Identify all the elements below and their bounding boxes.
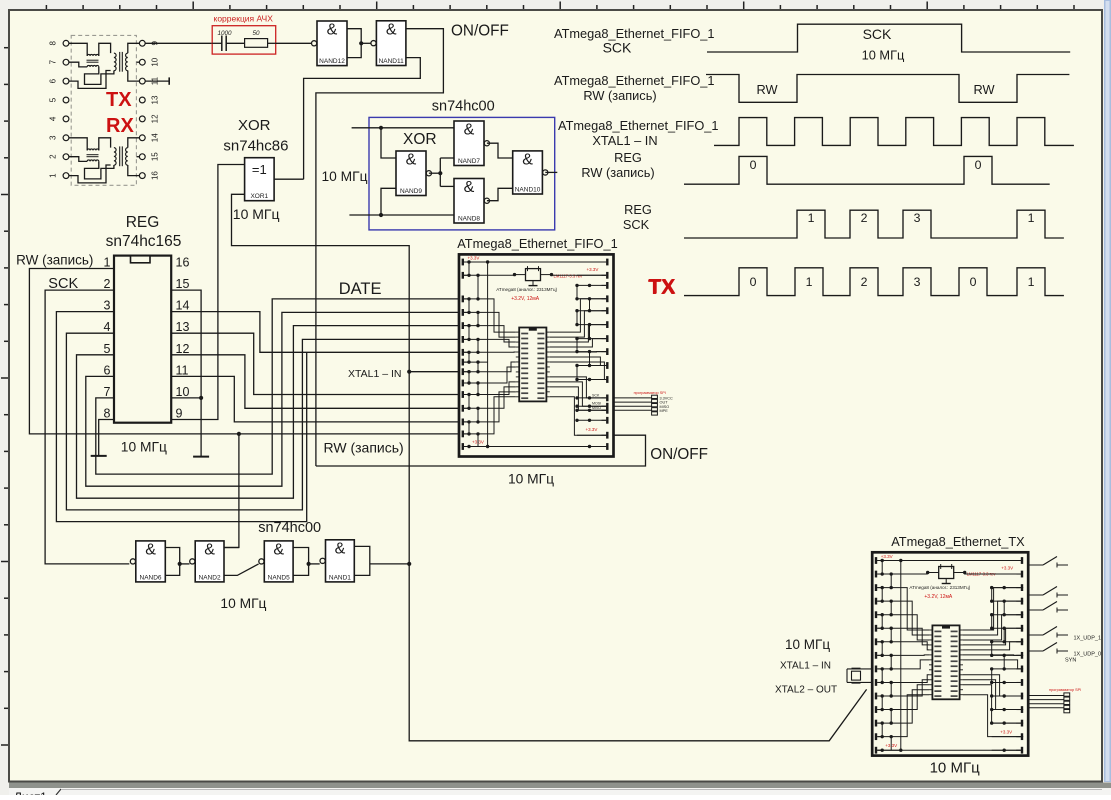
board pin header L7 [875, 638, 877, 645]
switch S4 [1028, 634, 1043, 636]
wire: REG pin14 jog [171, 312, 459, 353]
regulator feed wires [488, 274, 515, 276]
svg-text:5: 5 [104, 342, 111, 356]
svg-text:RW: RW [973, 82, 995, 97]
svg-text:NAND8: NAND8 [458, 216, 480, 223]
wire board row to IC pin 13 [488, 392, 516, 422]
row wire R12 [577, 405, 606, 407]
nand gate NAND9 [396, 151, 432, 196]
IC pin stub 2 [929, 634, 932, 636]
capacitor C (1000) [212, 42, 222, 44]
wire: B to NAND9 [381, 188, 396, 215]
svg-text:REG: REG [614, 150, 642, 165]
IC pin stub 3 [516, 341, 519, 343]
row wire R4 [992, 600, 1021, 602]
wire board row to IC pin 13 [901, 690, 929, 723]
svg-text:ON/OFF: ON/OFF [451, 23, 509, 40]
wire board row to IC pin 3 [901, 615, 929, 640]
IC pin stub 13 [929, 689, 932, 691]
board pin header R8 [606, 348, 608, 355]
svg-text:16: 16 [176, 256, 190, 270]
wire IC pin 4 to board row [550, 339, 609, 347]
crystal Y1 [847, 668, 872, 670]
svg-text:+3.3V: +3.3V [586, 427, 598, 432]
row wire R16 [577, 446, 606, 448]
svg-text:+3.2V, 12мА: +3.2V, 12мА [924, 594, 953, 600]
transformer pin 6 (left) [63, 78, 69, 84]
svg-text:13: 13 [176, 320, 190, 334]
IC pin stub 11 [929, 679, 932, 681]
board pin header L10 [462, 380, 464, 387]
junction [379, 126, 383, 130]
svg-text:16: 16 [151, 171, 160, 180]
IC pin stub 5 [516, 351, 519, 353]
switch S2 [1028, 594, 1043, 596]
wire IC pin 10 to board row [550, 377, 609, 398]
svg-text:REG: REG [126, 214, 160, 231]
row wire L15 [877, 749, 901, 751]
board pin header L5 [462, 322, 464, 329]
svg-text:&: & [464, 122, 475, 139]
transformer pin 4 (left) [63, 116, 69, 122]
IC pin stub 9 [516, 371, 519, 373]
board pin header L11 [462, 391, 464, 398]
NAND5 input tie [293, 548, 309, 576]
svg-text:SCK: SCK [603, 40, 632, 56]
board pin header R3 [1021, 584, 1023, 591]
wire: REG pin6 bus [86, 312, 459, 486]
board pin header R5 [606, 307, 608, 314]
svg-text:8: 8 [49, 41, 58, 46]
svg-text:SCK: SCK [623, 217, 650, 232]
svg-text:12: 12 [176, 342, 190, 356]
svg-text:3: 3 [49, 135, 58, 140]
svg-text:+3.3V: +3.3V [1000, 730, 1012, 735]
svg-text:программатор SPI: программатор SPI [1049, 688, 1081, 692]
svg-text:2: 2 [49, 154, 58, 159]
wire IC pin 1 to board row [550, 299, 609, 332]
board pin header L11 [875, 693, 877, 700]
board ATmega8_Ethernet_TX [872, 534, 1028, 756]
board pin header L2 [462, 272, 464, 279]
wire: REG pin13 jog [171, 333, 459, 394]
wire: transformer pin9 to correction box [145, 42, 212, 44]
board pin header L15 [875, 747, 877, 754]
wire: REG pin2 SCK net [45, 290, 129, 564]
switch S1 [1028, 564, 1043, 566]
junction clock/NAND1 [407, 562, 411, 566]
board pin header L10 [875, 679, 877, 686]
board pin header R12 [606, 403, 608, 410]
nand gate NAND8 [454, 179, 490, 224]
row wire L8 [877, 654, 901, 656]
row wire R2 [992, 573, 1021, 575]
svg-text:10 МГц: 10 МГц [508, 472, 554, 487]
wire: transformer to right top pin [128, 43, 140, 53]
svg-text:+3.3V: +3.3V [885, 743, 897, 748]
wire: XOR1 output [274, 178, 304, 180]
IC pin stub 1 [516, 331, 519, 333]
wire board row to IC pin 14 [488, 397, 516, 434]
wire: XOR1 input B (DATE net) [232, 194, 867, 741]
left rail 1 (ladder) [468, 262, 470, 275]
left rail long [487, 262, 489, 447]
NAND1 input tie [354, 546, 370, 575]
wire board row to IC pin 10 [901, 675, 929, 683]
right ladder rail [576, 285, 578, 298]
row wire R10 [577, 379, 606, 381]
svg-text:3: 3 [914, 275, 921, 289]
Ethernet transformer module (dashed outline) [71, 35, 136, 185]
svg-text:+3.2V, 12мА: +3.2V, 12мА [511, 296, 540, 302]
junction RW [237, 432, 241, 436]
wire: pin bottom loop [69, 165, 111, 183]
wire: REG pin5 bus [77, 326, 460, 499]
transformer pin 1 (left) [63, 173, 69, 179]
pin11 termination wire [145, 80, 169, 82]
IC pin stub 7 [516, 361, 519, 363]
row wire L7 [464, 351, 488, 353]
svg-text:ATmega8_Ethernet_FIFO_1: ATmega8_Ethernet_FIFO_1 [457, 236, 618, 251]
wire: input stub A [352, 127, 454, 129]
board pin header R4 [1021, 598, 1023, 605]
voltage regulator LM1117 [526, 269, 541, 281]
wire board row to IC pin 7 [488, 362, 516, 372]
row wire R10 [992, 681, 1021, 683]
wire: REG pin7 bus [96, 299, 459, 474]
microcontroller IC (ATmega8) [519, 328, 546, 402]
row wire R12 [992, 709, 1021, 711]
svg-text:2: 2 [861, 211, 868, 225]
svg-text:ATmega8_Ethernet_FIFO_1: ATmega8_Ethernet_FIFO_1 [558, 118, 719, 133]
board pin header L13 [462, 419, 464, 426]
IC pin stub 14 [516, 396, 519, 398]
IC pin stub 2 [516, 336, 519, 338]
svg-text:&: & [522, 151, 533, 168]
wire: pin top to choke [69, 43, 87, 56]
svg-text:14: 14 [151, 133, 160, 142]
row wire R7 [992, 641, 1021, 643]
svg-text:коррекция АЧХ: коррекция АЧХ [214, 14, 274, 24]
wire board row to IC pin 2 [488, 312, 516, 337]
row wire L13 [464, 421, 488, 423]
board pin header R13 [1021, 720, 1023, 727]
wire: REG pin3 bus [56, 312, 306, 522]
wire: XOR1 input A from REG pin9 [171, 165, 244, 420]
IC pin stub 9 [929, 669, 932, 671]
svg-text:ATmega8_Ethernet_TX: ATmega8_Ethernet_TX [891, 534, 1025, 549]
svg-text:10 МГц: 10 МГц [220, 596, 266, 611]
row wire L7 [877, 641, 901, 643]
board pin header L15 [462, 443, 464, 450]
svg-text:&: & [406, 152, 417, 169]
junction [178, 562, 182, 566]
IC pin stub 11 [516, 381, 519, 383]
wire board row to IC pin 12 [901, 685, 929, 710]
wire: REG pin15 to ground [171, 290, 201, 457]
wire to connector pin 4 [614, 409, 652, 411]
programming connector J1 [652, 395, 658, 398]
microcontroller IC (ATmega8) [932, 625, 959, 699]
svg-text:10: 10 [151, 57, 160, 66]
wire: RW to NAND2 input [224, 434, 239, 548]
board pin header L14 [462, 431, 464, 438]
row wire L12 [464, 407, 488, 409]
transformer pin 9 (right) [139, 40, 145, 46]
svg-text:XTAL2 – OUT: XTAL2 – OUT [775, 685, 837, 696]
board pin header L13 [875, 720, 877, 727]
svg-text:MPE: MPE [660, 409, 669, 413]
row wire R14 [992, 736, 1021, 738]
wire board row to IC pin 3 [488, 326, 516, 342]
IC pin stub 8 [929, 664, 932, 666]
board pin header R12 [1021, 706, 1023, 713]
wire to connector pin 3 [614, 405, 652, 407]
ground symbol [193, 456, 209, 458]
svg-text:2: 2 [104, 277, 111, 291]
wire: choke lower loop to transformer bottom [85, 161, 114, 179]
row wire R5 [992, 614, 1021, 616]
transformer pin 2 (left) [63, 154, 69, 160]
wire: NAND9 out fan [429, 172, 440, 174]
row wire L13 [877, 722, 901, 724]
ground symbol [91, 455, 107, 457]
row wire L12 [877, 709, 901, 711]
transformer pin 3 (left) [63, 135, 69, 141]
switch S5 [1028, 650, 1043, 652]
wire IC pin 6 to board row [963, 654, 1023, 656]
board pin header L5 [875, 611, 877, 618]
board pin header R9 [1021, 666, 1023, 673]
svg-text:0: 0 [970, 275, 977, 289]
nand gate NAND10 [513, 151, 548, 194]
board pin header R7 [606, 335, 608, 342]
wire IC pin 2 to board row [963, 601, 1023, 635]
row wire R2 [577, 274, 606, 276]
wire: NAND8 out to NAND10 [487, 188, 513, 200]
transformer pin 10 (right) [139, 59, 145, 65]
row wire R3 [992, 587, 1021, 589]
svg-text:9: 9 [176, 406, 183, 420]
bottom power row [877, 749, 1021, 751]
transformer pin 15 (right) [139, 154, 145, 160]
board pin header R5 [1021, 611, 1023, 618]
top power row [877, 560, 1021, 562]
board pin header R16 [606, 443, 608, 450]
svg-text:sn74hc00: sn74hc00 [432, 99, 495, 115]
svg-text:NAND12: NAND12 [319, 58, 345, 65]
svg-text:REG: REG [624, 202, 652, 217]
wire to NAND2 out [180, 563, 190, 565]
row wire L11 [464, 394, 488, 396]
row wire R5 [577, 310, 606, 312]
board pin header L9 [462, 368, 464, 375]
svg-text:0: 0 [975, 158, 982, 172]
junction [379, 213, 383, 217]
NAND2 input B diagonal to NAND5 out [224, 564, 259, 576]
wire IC pin 10 to board row [963, 675, 1023, 696]
wire: pin mid to choke lower winding [69, 157, 87, 162]
svg-text:DATE: DATE [339, 280, 382, 298]
IC pin stub 5 [929, 649, 932, 651]
transformer pin 11 (right) [139, 78, 145, 84]
board pin header R15 [1021, 747, 1023, 754]
svg-text:1: 1 [49, 173, 58, 178]
svg-text:50: 50 [252, 30, 260, 37]
svg-text:+3.3V: +3.3V [472, 440, 484, 445]
wire IC pin 3 to board row [963, 615, 1023, 640]
board pin header R1 [1021, 557, 1023, 564]
svg-text:SYN: SYN [1065, 658, 1076, 664]
board pin header R3 [606, 282, 608, 289]
nand gate NAND5 [259, 541, 293, 582]
row wire L14 [464, 433, 488, 435]
svg-text:3: 3 [104, 299, 111, 313]
bottom gray scrollbar [9, 783, 1111, 789]
svg-text:13: 13 [151, 95, 160, 104]
row wire R8 [577, 351, 606, 353]
board pin header L4 [462, 309, 464, 316]
svg-text:SCK: SCK [863, 26, 892, 42]
row wire L14 [877, 736, 901, 738]
board ATmega8_Ethernet_FIFO_1 [457, 236, 618, 457]
svg-text:&: & [335, 540, 346, 557]
IC pin stub 12 [929, 684, 932, 686]
junction [359, 41, 363, 45]
wire to connector pin 2 [614, 401, 652, 403]
wire: A to NAND9 [381, 128, 396, 158]
IC pin stub 6 [929, 654, 932, 656]
row wire R15 [577, 434, 606, 436]
wire: pin mid to choke lower winding [69, 62, 87, 67]
right ladder rail [991, 588, 993, 602]
board pin header L7 [462, 349, 464, 356]
wire: pin top to choke [69, 138, 87, 151]
TX programming connector J2 [1064, 693, 1070, 696]
wire: choke lower loop to transformer bottom [85, 67, 114, 85]
transformer pin 16 (right) [139, 173, 145, 179]
wire IC pin 12 to board row [963, 685, 1023, 723]
svg-text:&: & [327, 22, 338, 39]
row wire R9 [992, 668, 1021, 670]
board pin header R2 [606, 272, 608, 279]
junction [199, 396, 203, 400]
board pin header R7 [1021, 638, 1023, 645]
svg-text:XOR: XOR [238, 117, 271, 134]
regulator feed wires [901, 573, 928, 575]
row wire L10 [464, 382, 488, 384]
IC pin stub 14 [929, 694, 932, 696]
nand gate NAND2 [190, 541, 224, 582]
row wire R11 [992, 695, 1021, 697]
board pin header L3 [462, 296, 464, 303]
wire: transformer to right bottom pin [128, 165, 140, 176]
row wire L15 [464, 446, 488, 448]
svg-text:5: 5 [49, 97, 58, 102]
svg-text:программатор SPI: программатор SPI [634, 391, 666, 395]
IC pin stub 4 [929, 644, 932, 646]
wire IC pin 5 to board row [550, 351, 609, 353]
common-mode choke windings [87, 149, 99, 150]
row wire L5 [464, 325, 488, 327]
wire: REG pin8 to ground [99, 420, 114, 456]
board pin header L1 [462, 259, 464, 266]
svg-text:11: 11 [176, 363, 189, 377]
wire: input stub B [349, 214, 454, 216]
svg-text:NAND9: NAND9 [400, 188, 422, 195]
svg-text:7: 7 [48, 59, 57, 64]
svg-text:Лист1: Лист1 [14, 790, 47, 795]
nand gate NAND1 [320, 540, 354, 582]
svg-text:NAND11: NAND11 [379, 58, 405, 65]
wire board row to IC pin 4 [901, 628, 929, 645]
wire: pin bottom loop [69, 71, 111, 89]
row wire L3 [464, 298, 488, 300]
pin10 stub [137, 61, 140, 63]
svg-text:0: 0 [750, 275, 757, 289]
svg-text:NAND6: NAND6 [140, 574, 162, 581]
wire board row to IC pin 5 [901, 642, 929, 650]
svg-text:10 МГц: 10 МГц [785, 637, 830, 652]
wire IC pin 3 to board row [550, 325, 609, 342]
svg-text:4: 4 [49, 116, 58, 121]
svg-text:LM1117-3.3 rev: LM1117-3.3 rev [554, 274, 584, 279]
svg-text:2: 2 [861, 275, 868, 289]
svg-text:1: 1 [806, 275, 813, 289]
svg-text:ATmega8_Ethernet_FIFO_1: ATmega8_Ethernet_FIFO_1 [554, 26, 715, 41]
row wire L4 [877, 600, 901, 602]
board pin header R8 [1021, 652, 1023, 659]
wire: choke to transformer top [99, 138, 111, 151]
wire: NAND7 out to NAND10 [487, 143, 513, 158]
board pin header R4 [606, 295, 608, 302]
wire to connector pin 1 [614, 397, 652, 399]
board pin header L6 [875, 625, 877, 632]
wire: REG pin1 RW net [29, 269, 459, 434]
svg-text:10 МГц: 10 МГц [322, 169, 368, 184]
IC pin stub 4 [516, 346, 519, 348]
svg-text:1X_UDP_1: 1X_UDP_1 [1074, 636, 1102, 642]
IC pin stub 13 [516, 391, 519, 393]
row wire R9 [577, 365, 606, 367]
svg-text:sn74hc86: sn74hc86 [223, 138, 288, 155]
wire: NAND1 inputs to clock net [370, 563, 409, 565]
svg-text:=1: =1 [252, 162, 267, 177]
resistor R (50) [245, 39, 268, 48]
svg-text:6: 6 [104, 363, 111, 377]
IC pin stub 12 [516, 386, 519, 388]
board pin header L8 [875, 652, 877, 659]
svg-text:NAND10: NAND10 [515, 187, 541, 194]
board pin header L6 [462, 336, 464, 343]
row wire L5 [877, 614, 901, 616]
svg-text:RW (запись): RW (запись) [583, 88, 656, 103]
wire: REG pin12 jog [171, 355, 459, 409]
row wire R7 [577, 338, 606, 340]
row wire R13 [992, 722, 1021, 724]
svg-text:+3.3V: +3.3V [587, 267, 599, 272]
svg-text:RX: RX [106, 115, 134, 137]
junction [307, 562, 311, 566]
wire board row to IC pin 12 [488, 387, 516, 408]
row wire R6 [577, 324, 606, 326]
svg-text:10 МГц: 10 МГц [233, 206, 280, 222]
svg-text:1X_UDP_0: 1X_UDP_0 [1074, 652, 1102, 658]
svg-text:10 МГц: 10 МГц [930, 760, 980, 777]
wire: ON/OFF net to FIFO [316, 435, 646, 466]
transformer pin 5 (left) [63, 97, 69, 103]
board pin header L4 [875, 598, 877, 605]
